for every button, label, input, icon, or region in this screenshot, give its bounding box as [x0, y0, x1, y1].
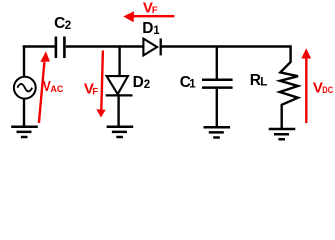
svg-text:C: C	[54, 15, 65, 32]
svg-text:R: R	[250, 72, 261, 89]
svg-text:1: 1	[189, 79, 196, 91]
svg-text:DC: DC	[322, 85, 333, 96]
svg-text:F: F	[152, 5, 158, 16]
svg-text:1: 1	[153, 25, 160, 37]
svg-text:L: L	[260, 76, 267, 88]
svg-text:D: D	[142, 20, 153, 37]
svg-text:D: D	[133, 74, 144, 91]
svg-text:2: 2	[144, 79, 150, 91]
svg-text:AC: AC	[50, 84, 63, 94]
svg-text:2: 2	[65, 20, 71, 32]
svg-text:F: F	[92, 87, 98, 98]
